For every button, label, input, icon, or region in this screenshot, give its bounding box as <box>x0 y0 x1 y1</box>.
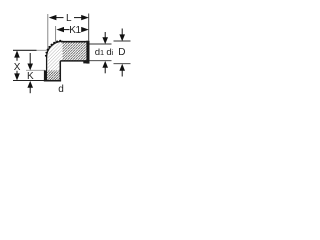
svg-text:D: D <box>118 47 125 58</box>
svg-text:L: L <box>66 13 72 24</box>
svg-text:d: d <box>58 84 64 95</box>
svg-text:d1 di: d1 di <box>95 47 114 58</box>
svg-text:X: X <box>14 62 21 73</box>
svg-text:K: K <box>27 71 34 82</box>
svg-text:K1: K1 <box>69 25 81 36</box>
